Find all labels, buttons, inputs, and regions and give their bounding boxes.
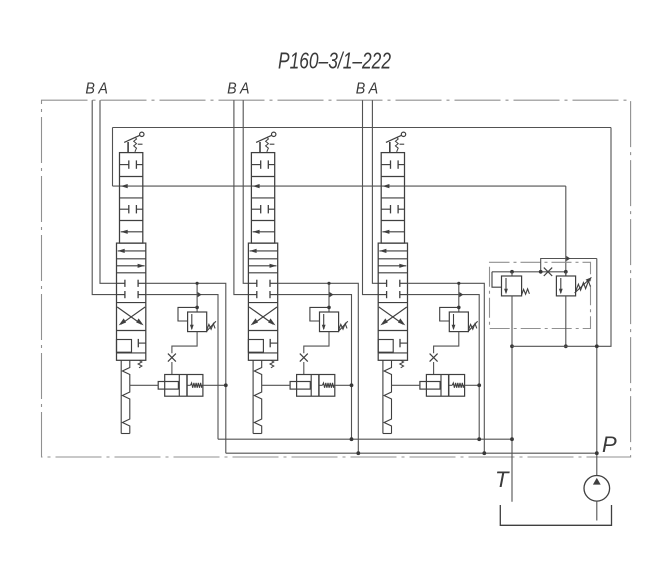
wire work port B section 3 bbox=[363, 100, 379, 294]
junction dot check output section 3 bbox=[477, 383, 481, 387]
check valve plunger section 3 bbox=[420, 382, 440, 390]
check valve plunger section 2 bbox=[290, 382, 310, 390]
wire relief output section 1 bbox=[172, 332, 197, 354]
main valve body section 1 bbox=[117, 243, 146, 360]
svg-text:B A: B A bbox=[227, 81, 250, 98]
main valve arrow-right row section 3 bbox=[378, 265, 406, 267]
pilot stack closed ports box1 section 1 bbox=[120, 164, 129, 166]
main valve closed-center ports section 3 bbox=[378, 282, 386, 284]
wire pilot header (top line) bbox=[113, 127, 612, 129]
main valve bottom position section 2 bbox=[248, 340, 263, 353]
wire P supply rail bbox=[226, 452, 597, 454]
manual lever section 3 bbox=[389, 142, 391, 153]
main valve bottom position section 1 bbox=[117, 340, 132, 353]
wire work port B section 2 bbox=[234, 100, 249, 294]
check valve plunger section 1 bbox=[158, 382, 178, 390]
svg-text:P: P bbox=[602, 432, 617, 457]
wire main relief drain bbox=[565, 296, 567, 346]
pilot stack flow arrow box4 section 3 bbox=[382, 231, 404, 233]
wire pump suction bbox=[596, 501, 598, 520]
junction dot pilot loop section 3 bbox=[457, 306, 461, 310]
main valve arrow-left row section 1 bbox=[118, 250, 146, 252]
wire work port A section 3 bbox=[372, 100, 378, 283]
wire check valve output section 3 bbox=[465, 384, 480, 386]
pilot loop section 1 bbox=[178, 307, 197, 321]
check valve body section 1 bbox=[165, 375, 203, 397]
pilot stack flow arrow box2 section 1 bbox=[121, 184, 128, 188]
main relief valve bbox=[556, 276, 575, 296]
orifice section 3 bbox=[430, 354, 438, 362]
overload relief valve section 1 bbox=[188, 312, 207, 332]
junction dot check output section 1 bbox=[224, 383, 228, 387]
wire spool to check valve section 1 bbox=[130, 384, 158, 386]
manual lever section 2 bbox=[259, 142, 261, 153]
junction dot X line right valve bbox=[564, 270, 568, 274]
wire T port line section 3 bbox=[408, 295, 480, 440]
wire T port line section 1 bbox=[146, 295, 218, 440]
wire relief output section 2 bbox=[304, 332, 329, 354]
wire T port line section 2 bbox=[278, 295, 352, 440]
pilot orifice bbox=[544, 268, 552, 276]
junction dot branch section 3 bbox=[457, 282, 460, 285]
wire pilot X line bbox=[492, 271, 566, 273]
wire pilot relief drain / T return bbox=[511, 296, 513, 502]
wire drain collector bbox=[512, 345, 597, 347]
wire relief branch section 2 bbox=[328, 283, 330, 312]
main valve arrow-left row section 3 bbox=[379, 250, 407, 252]
pilot relief valve spring bbox=[522, 289, 530, 295]
junction dot T rail relief bbox=[510, 437, 514, 441]
main valve arrow-left row section 2 bbox=[250, 250, 278, 252]
junction dot pilot loop section 1 bbox=[195, 306, 199, 310]
wire spool to check valve section 2 bbox=[262, 384, 290, 386]
return spring long section 2 bbox=[252, 360, 254, 433]
main valve closed-center ports section 2 bbox=[248, 282, 256, 284]
main valve arrow-right row section 1 bbox=[117, 265, 145, 267]
pilot valve stack body section 2 bbox=[251, 153, 274, 244]
orifice section 1 bbox=[168, 354, 176, 362]
wire pilot line down to unloading valve bbox=[565, 186, 567, 276]
wire T collector rail bbox=[218, 438, 512, 440]
wire right vertical to pump line bbox=[596, 259, 598, 476]
check valve spring section 1 bbox=[187, 384, 191, 386]
overload relief valve section 3 bbox=[449, 312, 468, 332]
pilot stack flow arrow box4 section 2 bbox=[253, 231, 275, 233]
centering spring small section 2 bbox=[270, 360, 274, 368]
junction dot drain pump line bbox=[595, 344, 599, 348]
wire relief output section 3 bbox=[434, 332, 459, 354]
main valve crossed-flow position section 1 bbox=[117, 307, 141, 324]
crossing marker section 2 bbox=[330, 292, 334, 297]
junction dot pilot loop section 2 bbox=[327, 306, 331, 310]
crossing marker unloading bbox=[566, 256, 570, 261]
centering spring small section 1 bbox=[138, 360, 142, 368]
wire work port B section 1 bbox=[92, 100, 116, 294]
pilot relief valve loop bbox=[492, 272, 502, 287]
junction dot X line jog bbox=[539, 270, 543, 274]
overload relief valve section 2 bbox=[320, 312, 339, 332]
wire relief branch section 1 bbox=[196, 283, 198, 312]
pilot stack closed ports box3 section 3 bbox=[381, 208, 390, 210]
unloading jog wire bbox=[541, 259, 597, 272]
pilot stack closed ports box1 section 2 bbox=[251, 164, 260, 166]
tank bbox=[500, 505, 611, 525]
wire check valve output section 2 bbox=[335, 384, 352, 386]
wire pilot supply line bbox=[113, 185, 566, 187]
wire pilot header left drop bbox=[112, 128, 114, 187]
wire work port A section 1 bbox=[100, 100, 117, 283]
svg-text:Р160–3/1–222: Р160–3/1–222 bbox=[278, 48, 391, 74]
main valve crossed-flow position section 3 bbox=[379, 307, 403, 324]
pilot relief valve bbox=[502, 276, 522, 296]
junction dot drain right bbox=[564, 344, 568, 348]
pilot stack flow arrow box2 section 2 bbox=[253, 184, 260, 188]
junction dot P rail s3 bbox=[482, 451, 486, 455]
pilot relief valve stub bbox=[511, 272, 513, 276]
relief valve spring section 3 bbox=[468, 324, 476, 330]
wire orifice to check valve section 2 bbox=[303, 362, 305, 375]
main valve body section 2 bbox=[248, 243, 277, 360]
pump bbox=[584, 476, 610, 502]
pilot stack closed ports box3 section 2 bbox=[251, 208, 260, 210]
wire P port line section 1 bbox=[146, 283, 226, 453]
junction dot P rail s2 bbox=[356, 451, 360, 455]
pilot stack flow arrow box2 section 3 bbox=[382, 184, 389, 188]
junction dot T rail s3 bbox=[477, 437, 481, 441]
check valve spring section 3 bbox=[449, 384, 453, 386]
wire P port line section 2 bbox=[278, 283, 359, 453]
pilot stack flow arrow box4 section 1 bbox=[121, 231, 143, 233]
relief valve spring section 1 bbox=[207, 324, 215, 330]
orifice section 2 bbox=[300, 354, 308, 362]
main valve crossed-flow position section 2 bbox=[249, 307, 273, 324]
enclosure frame (dash-dot boundary of valve assembly) bbox=[42, 100, 631, 457]
main valve arrow-right row section 2 bbox=[248, 265, 276, 267]
junction dot drain left bbox=[510, 344, 514, 348]
svg-text:B A: B A bbox=[356, 81, 379, 98]
crossing marker section 3 bbox=[459, 292, 463, 297]
pilot valve stack body section 3 bbox=[381, 153, 404, 244]
wire check valve output section 1 bbox=[203, 384, 226, 386]
main relief valve stub bbox=[565, 272, 567, 276]
junction dot T rail s2 bbox=[350, 437, 354, 441]
check valve spring section 2 bbox=[319, 384, 323, 386]
junction dot check output section 2 bbox=[350, 383, 354, 387]
relief valve spring section 2 bbox=[339, 324, 347, 330]
centering spring small section 3 bbox=[400, 360, 404, 368]
svg-text:T: T bbox=[495, 467, 510, 492]
wire orifice to check valve section 1 bbox=[171, 362, 173, 375]
junction dot branch section 1 bbox=[196, 282, 199, 285]
wire P port line section 3 bbox=[408, 283, 485, 453]
return spring long section 3 bbox=[382, 360, 384, 433]
wire spool to check valve section 3 bbox=[392, 384, 420, 386]
relief block enclosure dash-dot bbox=[490, 262, 591, 328]
pilot loop section 3 bbox=[440, 307, 459, 321]
svg-text:B A: B A bbox=[85, 81, 108, 98]
wire pilot header right drop bbox=[597, 128, 611, 347]
junction dot P rail pump bbox=[595, 451, 599, 455]
pilot stack closed ports box1 section 3 bbox=[381, 164, 390, 166]
wire relief branch section 3 bbox=[458, 283, 460, 312]
wire work port A section 2 bbox=[243, 100, 248, 283]
pilot valve stack body section 1 bbox=[120, 153, 143, 244]
main valve body section 3 bbox=[378, 243, 407, 360]
main valve bottom position section 3 bbox=[378, 340, 393, 353]
main valve closed-center ports section 1 bbox=[117, 282, 125, 284]
pilot stack closed ports box3 section 1 bbox=[120, 208, 129, 210]
crossing marker section 1 bbox=[198, 292, 202, 297]
return spring long section 1 bbox=[120, 360, 122, 433]
pilot loop section 2 bbox=[310, 307, 329, 321]
junction dot X line left valve bbox=[510, 270, 514, 274]
main relief valve adjustable spring bbox=[576, 281, 591, 292]
manual lever section 1 bbox=[127, 142, 129, 153]
check valve body section 3 bbox=[426, 375, 464, 397]
wire orifice to check valve section 3 bbox=[433, 362, 435, 375]
check valve body section 2 bbox=[297, 375, 335, 397]
junction dot branch section 2 bbox=[327, 282, 330, 285]
